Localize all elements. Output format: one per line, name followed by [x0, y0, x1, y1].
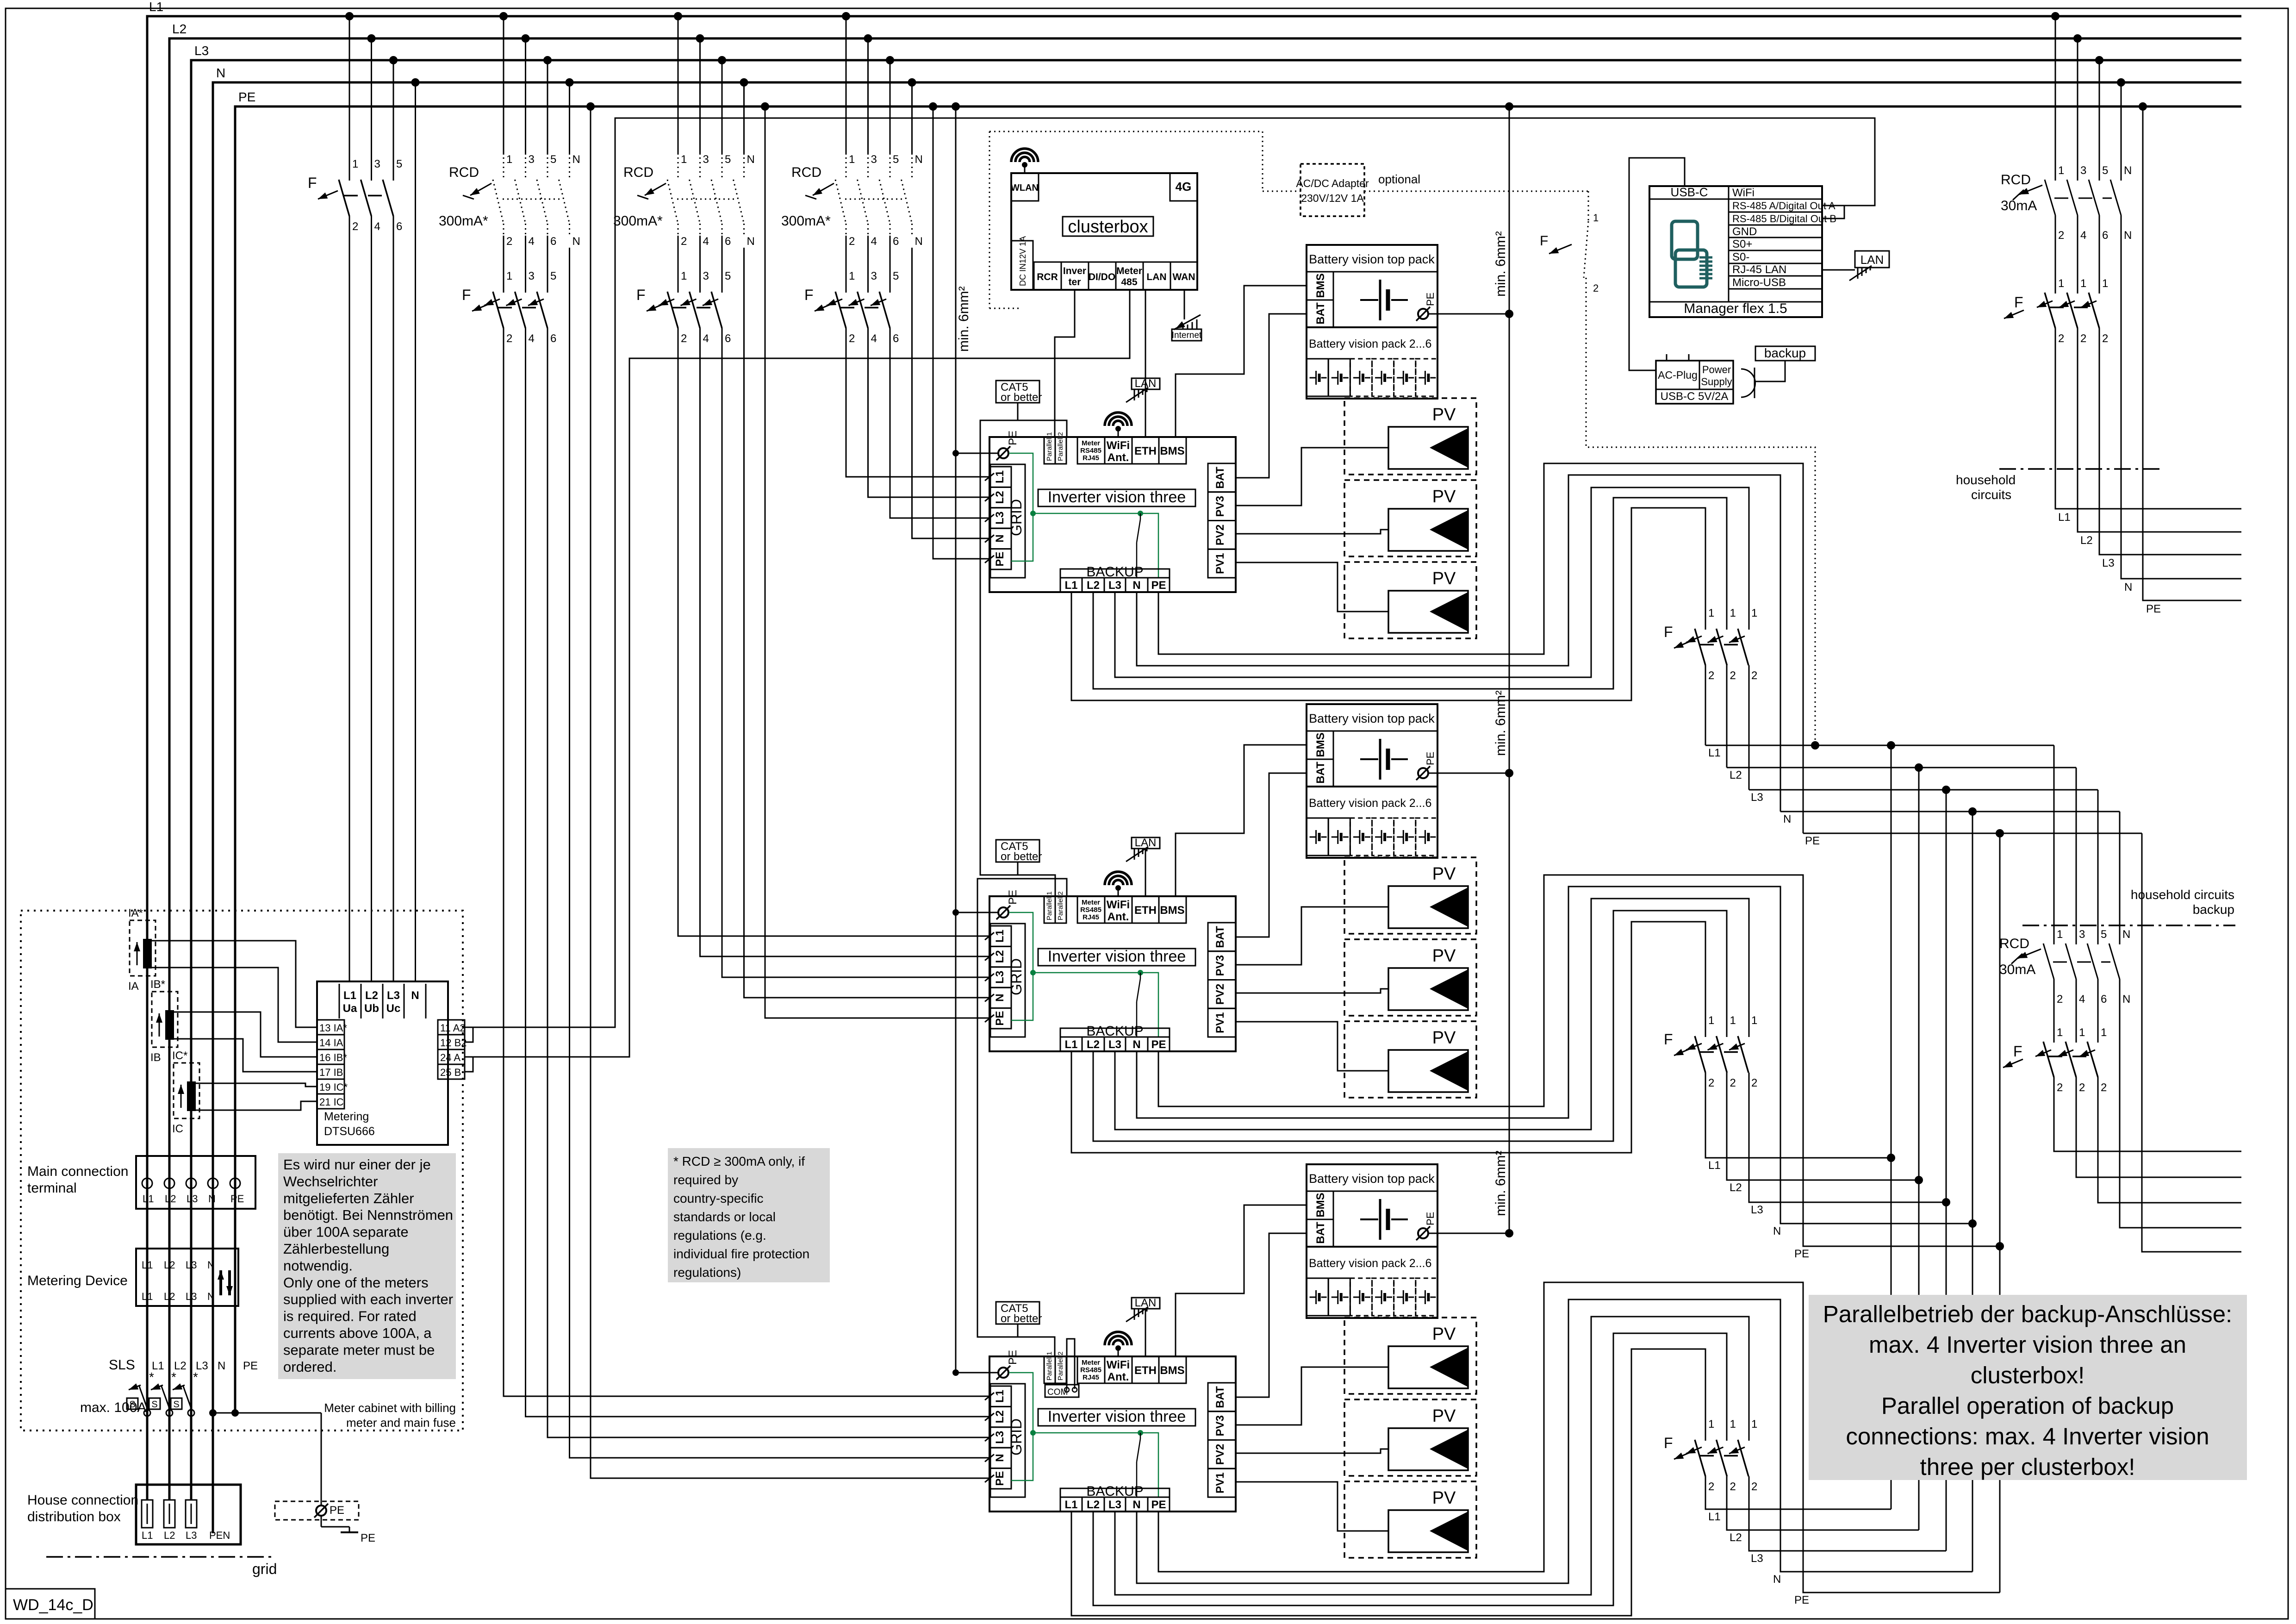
svg-text:L2: L2	[164, 1530, 175, 1541]
svg-text:300mA*: 300mA*	[439, 213, 488, 229]
inverter U1 BACKUP terminal block	[1060, 564, 1170, 592]
svg-text:Meter: Meter	[1116, 266, 1142, 276]
svg-text:L1: L1	[142, 1259, 153, 1271]
svg-text:BMS: BMS	[1160, 445, 1184, 457]
wire N feed inverter 2	[744, 248, 991, 998]
svg-text:grid: grid	[252, 1561, 277, 1577]
svg-text:PE: PE	[1151, 579, 1166, 592]
svg-text:BACKUP: BACKUP	[1086, 1484, 1143, 1499]
svg-text:distribution box: distribution box	[27, 1509, 121, 1524]
PE chassis rail	[952, 102, 971, 1373]
svg-text:BAT: BAT	[1214, 1386, 1226, 1408]
svg-text:IA: IA	[128, 980, 139, 993]
svg-text:supplied with each inverter: supplied with each inverter	[283, 1291, 453, 1307]
PV panel string 3.3	[1344, 1481, 1476, 1558]
F household	[2004, 293, 2108, 345]
svg-text:F: F	[2013, 1043, 2022, 1060]
svg-text:3: 3	[529, 153, 535, 166]
svg-text:PV: PV	[1432, 1324, 1456, 1344]
svg-text:ter: ter	[1069, 277, 1081, 287]
svg-text:USB-C: USB-C	[1671, 185, 1708, 199]
svg-text:BAT: BAT	[1214, 467, 1226, 489]
wire household backup out L3	[2098, 1077, 2241, 1203]
inverter U1 LAN box	[1126, 377, 1160, 402]
wire BMS inverter2 to battery	[1176, 745, 1307, 896]
svg-text:N: N	[747, 235, 755, 248]
svg-text:BACKUP: BACKUP	[1086, 564, 1143, 580]
svg-text:BMS: BMS	[1314, 732, 1327, 757]
svg-text:L2: L2	[994, 1410, 1006, 1423]
svg-text:PE: PE	[1151, 1038, 1166, 1051]
svg-text:L3: L3	[186, 1291, 197, 1302]
inverter U1 backup N switch	[1137, 513, 1140, 578]
inverter U2 GRID terminal block	[985, 924, 1025, 1037]
inverter U2 PE terminal	[952, 890, 1019, 919]
svg-text:5: 5	[893, 153, 899, 166]
wire household out L1	[2055, 328, 2241, 509]
svg-text:N: N	[994, 535, 1006, 543]
transformer CT IC	[172, 1049, 199, 1135]
wire household out L2	[2078, 328, 2241, 532]
svg-text:F: F	[636, 287, 646, 303]
wire L2 feed inverter 1	[868, 328, 991, 497]
wire BAT inverter1 to battery	[1236, 314, 1307, 478]
svg-text:6: 6	[893, 235, 899, 248]
transformer CT IB	[150, 978, 178, 1064]
note RCD 300mA gray box	[668, 1148, 830, 1282]
svg-text:BAT: BAT	[1314, 762, 1327, 784]
inverter U2 LAN box	[1126, 837, 1160, 862]
svg-text:1: 1	[352, 158, 358, 170]
dotted wire adapter to clusterbox	[1263, 191, 1300, 192]
svg-text:L3: L3	[2102, 557, 2115, 569]
wire backup L2 inverter3 to bus	[1093, 1333, 1727, 1605]
svg-text:PV2: PV2	[1214, 525, 1226, 545]
svg-text:PV: PV	[1432, 1028, 1456, 1048]
svg-text:PV: PV	[1432, 487, 1456, 506]
svg-text:is required. For rated: is required. For rated	[283, 1308, 417, 1324]
svg-text:L2: L2	[994, 491, 1006, 504]
svg-text:N: N	[411, 989, 419, 1002]
svg-text:BACKUP: BACKUP	[1086, 1024, 1143, 1039]
svg-text:PE: PE	[238, 90, 255, 104]
svg-text:max. 4 Inverter vision three a: max. 4 Inverter vision three an	[1869, 1331, 2186, 1358]
svg-text:1: 1	[1751, 1014, 1757, 1027]
svg-text:or better: or better	[1001, 850, 1042, 863]
svg-text:household: household	[1956, 473, 2016, 487]
svg-text:L1: L1	[1708, 747, 1721, 759]
svg-text:Inver: Inver	[1063, 266, 1086, 276]
svg-text:2: 2	[681, 332, 687, 345]
svg-text:Zählerbestellung: Zählerbestellung	[283, 1241, 389, 1257]
svg-text:max. 100A: max. 100A	[80, 1400, 146, 1415]
wire clusterbox WAN to internet	[1184, 290, 1185, 319]
svg-text:L3: L3	[1108, 579, 1121, 592]
svg-text:BMS: BMS	[1314, 273, 1327, 298]
wire backup riser L3	[1946, 790, 1947, 1551]
svg-text:17 IB: 17 IB	[319, 1067, 343, 1078]
svg-text:or better: or better	[1001, 391, 1042, 404]
svg-text:L1: L1	[143, 1193, 154, 1205]
svg-text:2: 2	[2101, 1081, 2107, 1094]
wire L1 feed inverter 3	[504, 328, 990, 1396]
svg-text:Battery vision pack 2...6: Battery vision pack 2...6	[1309, 337, 1431, 350]
svg-text:1: 1	[849, 153, 855, 166]
svg-text:24 A: 24 A	[440, 1052, 460, 1063]
svg-text:*: *	[193, 1370, 198, 1384]
svg-text:4G: 4G	[1176, 180, 1192, 194]
svg-text:PV: PV	[1432, 1488, 1456, 1508]
svg-text:PE: PE	[330, 1504, 344, 1517]
svg-text:6: 6	[893, 332, 899, 345]
svg-text:L3: L3	[1751, 1204, 1763, 1216]
inverter U1 WiFi antenna	[1105, 412, 1132, 437]
backup label box	[1755, 346, 1815, 361]
svg-text:230V/12V 1A: 230V/12V 1A	[1301, 192, 1364, 204]
svg-text:1: 1	[1751, 607, 1757, 619]
svg-text:4: 4	[374, 220, 380, 233]
wire backup L1 inverter2 to bus	[1071, 922, 1705, 1153]
svg-text:F: F	[804, 287, 814, 303]
svg-text:PE: PE	[994, 1011, 1006, 1026]
svg-text:RJ45: RJ45	[1083, 1374, 1099, 1381]
CAT5 box 2	[996, 840, 1042, 875]
wires bus to RCD inverter 2	[678, 16, 744, 155]
transformer CT IA	[128, 907, 156, 993]
svg-text:S0-: S0-	[1732, 251, 1749, 263]
PV panel string 2.1	[1344, 857, 1476, 934]
CAT5 box 3	[996, 1302, 1042, 1337]
inverter U2 top terminal row	[1044, 891, 1186, 923]
svg-text:L1: L1	[1708, 1159, 1721, 1172]
svg-text:F: F	[308, 175, 317, 191]
inverter U3 WiFi antenna	[1105, 1332, 1132, 1356]
junction dots column inverter 3	[499, 12, 595, 111]
wire household backup out PE	[2142, 833, 2241, 1252]
battery vision pack 2..6 B3	[1307, 1247, 1437, 1318]
svg-text:PE: PE	[1151, 1499, 1166, 1511]
svg-text:PE: PE	[1425, 1212, 1436, 1225]
svg-text:min. 6mm²: min. 6mm²	[1493, 231, 1508, 297]
svg-text:2: 2	[1751, 1077, 1757, 1089]
inverter U1 GRID terminal block	[985, 464, 1025, 578]
svg-text:12 B2: 12 B2	[440, 1037, 467, 1049]
svg-text:L2: L2	[165, 1193, 176, 1205]
svg-text:Supply: Supply	[1701, 376, 1732, 387]
svg-text:BMS: BMS	[1160, 1364, 1184, 1377]
svg-text:2: 2	[506, 235, 512, 248]
wires backup bus to RCD backup	[2054, 745, 2120, 944]
inverter U2 label	[1038, 948, 1195, 966]
wires household RCD to F	[2055, 227, 2108, 294]
wire backup to power supply plug	[1741, 361, 1785, 398]
wire PV3 inverter2	[1236, 907, 1388, 965]
svg-text:three per clusterbox!: three per clusterbox!	[1920, 1454, 2135, 1480]
svg-text:L2: L2	[1730, 769, 1742, 781]
svg-text:LAN: LAN	[1146, 272, 1166, 282]
svg-text:3: 3	[2079, 928, 2085, 941]
svg-text:1: 1	[1730, 1014, 1736, 1027]
svg-text:individual fire protection: individual fire protection	[673, 1247, 809, 1261]
svg-text:L1: L1	[149, 0, 163, 14]
wire BMS inverter3 to battery	[1176, 1205, 1307, 1356]
svg-text:2: 2	[1751, 1480, 1757, 1493]
svg-text:L2: L2	[164, 1259, 175, 1271]
svg-text:2: 2	[849, 332, 855, 345]
wires backup RCD to F backup	[2054, 991, 2107, 1043]
inverter U1 PV BAT terminal column	[1208, 463, 1236, 578]
svg-text:6: 6	[550, 332, 556, 345]
svg-text:Uc: Uc	[386, 1002, 401, 1015]
svg-text:backup: backup	[1764, 346, 1806, 360]
svg-text:BAT: BAT	[1314, 302, 1327, 325]
svg-text:PE: PE	[230, 1193, 244, 1205]
svg-text:PE: PE	[1794, 1594, 1809, 1606]
battery B1 cell symbol	[1360, 280, 1408, 320]
svg-text:F: F	[1664, 1435, 1673, 1451]
svg-text:1: 1	[2058, 164, 2064, 177]
svg-text:currents above 100A, a: currents above 100A, a	[283, 1325, 432, 1341]
wire PV1 inverter3	[1236, 1482, 1388, 1531]
clusterbox WLAN antenna	[1011, 149, 1038, 173]
svg-text:PE: PE	[2146, 603, 2161, 615]
inverter U2 green PE link	[1009, 912, 1158, 1037]
inverter U1 top terminal row	[1044, 432, 1186, 464]
svg-text:standards or local: standards or local	[673, 1210, 776, 1224]
svg-text:*: *	[149, 1370, 154, 1384]
wire backup riser L2	[1918, 768, 1920, 1530]
svg-text:6: 6	[725, 235, 731, 248]
svg-text:4: 4	[529, 235, 535, 248]
svg-text:RCD: RCD	[623, 165, 653, 180]
svg-text:4: 4	[2079, 993, 2085, 1006]
main connection terminal	[27, 1156, 255, 1209]
svg-text:Parallel 2: Parallel 2	[1057, 432, 1064, 461]
svg-text:RCR: RCR	[1037, 272, 1058, 282]
svg-text:2: 2	[506, 332, 512, 345]
svg-text:PE: PE	[1805, 835, 1820, 847]
wire inverter U2 ETH to LAN	[1145, 849, 1146, 896]
svg-text:House connection: House connection	[27, 1493, 138, 1508]
svg-text:min. 6mm²: min. 6mm²	[1493, 1150, 1508, 1216]
svg-text:N: N	[1773, 1225, 1781, 1237]
inverter U2 WiFi antenna	[1105, 872, 1132, 896]
svg-text:PV3: PV3	[1214, 1415, 1226, 1436]
svg-text:5: 5	[550, 270, 556, 282]
svg-text:* RCD ≥ 300mA only, if: * RCD ≥ 300mA only, if	[673, 1154, 805, 1168]
wires RCD to F inverter 3	[504, 236, 548, 293]
CAT5 box 1	[996, 381, 1042, 420]
svg-text:L2: L2	[1087, 579, 1100, 592]
svg-text:S0+: S0+	[1732, 238, 1752, 250]
wire backup riser N	[1972, 812, 1973, 1572]
svg-text:L3: L3	[387, 989, 400, 1002]
wire household backup out L1	[2054, 1077, 2241, 1151]
wire N PE earth bond	[209, 1409, 321, 1506]
svg-text:2: 2	[2057, 1081, 2063, 1094]
wire L3 feed inverter 2	[722, 328, 990, 977]
svg-text:RS485: RS485	[1080, 447, 1101, 455]
battery B2 PE terminal	[1416, 752, 1513, 780]
svg-text:IB: IB	[150, 1051, 161, 1064]
svg-text:DC IN12V 1A: DC IN12V 1A	[1018, 236, 1027, 286]
svg-text:DI/DO: DI/DO	[1089, 272, 1115, 282]
svg-text:Inverter vision three: Inverter vision three	[1048, 488, 1186, 506]
svg-text:PV3: PV3	[1214, 496, 1226, 517]
svg-text:L2: L2	[365, 989, 378, 1002]
clusterbox DC IN port	[1011, 236, 1033, 290]
svg-text:3: 3	[703, 153, 709, 166]
inverter U3 PV BAT terminal column	[1208, 1383, 1236, 1497]
svg-text:1: 1	[1708, 1014, 1714, 1027]
svg-text:3: 3	[374, 158, 380, 170]
svg-text:PV1: PV1	[1214, 1012, 1226, 1033]
clusterbox WLAN port	[1011, 173, 1039, 201]
svg-text:L2: L2	[1730, 1181, 1742, 1194]
svg-text:F: F	[2014, 294, 2023, 311]
svg-text:1: 1	[1730, 1418, 1736, 1430]
svg-text:3: 3	[529, 270, 535, 282]
wire RS485 pair meter to manager	[465, 118, 1875, 1042]
svg-text:L1: L1	[1708, 1511, 1721, 1523]
svg-text:5: 5	[2101, 928, 2107, 941]
svg-text:PV: PV	[1432, 946, 1456, 966]
svg-text:Main connection: Main connection	[27, 1164, 128, 1179]
svg-text:F: F	[1540, 233, 1548, 249]
svg-text:PE: PE	[1425, 752, 1436, 765]
svg-text:Battery vision top pack: Battery vision top pack	[1309, 252, 1435, 266]
wire BMS inverter1 to battery	[1176, 286, 1307, 437]
wire L3 feed inverter 3	[548, 328, 990, 1437]
svg-text:Battery vision top pack: Battery vision top pack	[1309, 1172, 1435, 1186]
svg-text:4: 4	[871, 332, 877, 345]
svg-text:RS485: RS485	[1080, 906, 1101, 914]
svg-text:16 IB*: 16 IB*	[319, 1052, 347, 1063]
svg-text:Parallel 1: Parallel 1	[1045, 1351, 1053, 1380]
junction dots household feed	[2051, 12, 2147, 111]
battery B1 PE terminal	[1416, 293, 1513, 321]
svg-text:PE: PE	[243, 1360, 258, 1372]
svg-text:PV3: PV3	[1214, 955, 1226, 976]
wire L1 feed inverter 2	[678, 328, 990, 936]
svg-text:Parallel 1: Parallel 1	[1045, 432, 1053, 461]
inverter U2 backup N switch	[1137, 973, 1140, 1037]
svg-text:clusterbox!: clusterbox!	[1971, 1362, 2085, 1388]
svg-text:1: 1	[1730, 607, 1736, 619]
junction dots column inverter 2	[674, 12, 769, 111]
svg-text:N: N	[207, 1259, 215, 1271]
svg-text:L1: L1	[343, 989, 356, 1002]
wire CT IC to meter	[195, 1101, 317, 1110]
wire PE feed inverter 2	[765, 106, 990, 1018]
svg-text:L1: L1	[994, 930, 1006, 943]
svg-text:L1: L1	[994, 470, 1006, 483]
svg-text:6: 6	[2102, 229, 2108, 242]
svg-text:3: 3	[871, 270, 877, 282]
svg-text:notwendig.: notwendig.	[283, 1257, 353, 1274]
wire household out N	[2121, 227, 2241, 579]
svg-text:N: N	[216, 66, 225, 80]
meter cabinet dotted boundary	[21, 911, 463, 1430]
svg-text:GRID: GRID	[1008, 499, 1025, 536]
note parallel operation gray box	[1809, 1295, 2247, 1480]
fuse F backup bundle B	[1664, 1014, 1757, 1089]
wire backup PE inverter3 to bus	[1158, 1282, 2000, 1593]
svg-text:GRID: GRID	[1008, 1418, 1025, 1455]
RCD RCD 300mA inverter 2	[613, 153, 755, 248]
battery B3 cell symbol	[1360, 1199, 1408, 1240]
inverter U3 label	[1038, 1408, 1195, 1426]
svg-text:1: 1	[506, 153, 512, 166]
fuse F backup bundle C	[1664, 1418, 1757, 1493]
svg-text:Ant.: Ant.	[1108, 911, 1129, 923]
svg-text:Meter: Meter	[1082, 1359, 1100, 1367]
svg-text:IC*: IC*	[172, 1049, 187, 1062]
RCD RCD 300mA inverter 3	[439, 153, 580, 248]
svg-text:N: N	[994, 1454, 1006, 1462]
node backup bus L1	[1705, 741, 2054, 759]
clusterbox terminal row	[1034, 262, 1197, 290]
svg-text:IA*: IA*	[128, 907, 143, 919]
svg-text:6: 6	[550, 235, 556, 248]
svg-text:S: S	[151, 1399, 157, 1410]
svg-text:RS485: RS485	[1080, 1366, 1101, 1374]
svg-text:BMS: BMS	[1160, 904, 1184, 917]
svg-text:6: 6	[725, 332, 731, 345]
svg-text:Parallelbetrieb der backup-Ans: Parallelbetrieb der backup-Anschlüsse:	[1823, 1301, 2232, 1327]
svg-text:1: 1	[2101, 1026, 2107, 1039]
wire household out L3	[2099, 328, 2241, 555]
svg-text:13 IA*: 13 IA*	[319, 1022, 347, 1034]
svg-text:F: F	[1664, 624, 1673, 640]
svg-text:L1: L1	[142, 1530, 153, 1541]
svg-text:1: 1	[506, 270, 512, 282]
op-amp inverter U1 outline	[989, 437, 1236, 592]
svg-text:household circuits: household circuits	[2131, 887, 2234, 902]
svg-text:1: 1	[1751, 1418, 1757, 1430]
house connection distribution box	[27, 1485, 241, 1544]
svg-text:ETH: ETH	[1134, 904, 1157, 917]
svg-text:1: 1	[2102, 277, 2108, 290]
AC/DC adapter	[1296, 164, 1369, 216]
svg-text:2: 2	[352, 220, 358, 233]
inverter U1 PE terminal	[952, 431, 1019, 460]
wire PE feed inverter 3	[591, 106, 990, 1478]
svg-text:300mA*: 300mA*	[613, 213, 663, 229]
junction dots meter feed column	[345, 12, 420, 87]
svg-text:IC: IC	[172, 1123, 183, 1135]
svg-text:LAN: LAN	[1135, 837, 1157, 849]
wire PV1 inverter2	[1236, 1022, 1388, 1071]
bus PE	[235, 106, 2241, 1413]
wire CT IB to meter	[174, 1039, 317, 1072]
svg-text:regulations (e.g.: regulations (e.g.	[673, 1228, 766, 1243]
op-amp inverter U2 outline	[989, 896, 1236, 1051]
svg-text:Metering Device: Metering Device	[27, 1273, 128, 1288]
svg-text:N: N	[2124, 164, 2132, 177]
svg-text:Internet: Internet	[1172, 331, 1202, 340]
battery vision top pack B1	[1307, 245, 1437, 327]
wire L2 feed inverter 3	[526, 328, 991, 1417]
battery PE rail	[1505, 102, 1513, 1235]
wire backup riser PE	[1999, 833, 2001, 1593]
wire backup L2 inverter2 to bus	[1093, 911, 1727, 1141]
svg-text:Metering: Metering	[324, 1110, 369, 1123]
svg-text:5: 5	[725, 153, 731, 166]
note meter cabinet	[324, 1401, 456, 1430]
svg-text:Parallel 2: Parallel 2	[1057, 891, 1064, 920]
svg-text:RJ45: RJ45	[1083, 913, 1099, 921]
